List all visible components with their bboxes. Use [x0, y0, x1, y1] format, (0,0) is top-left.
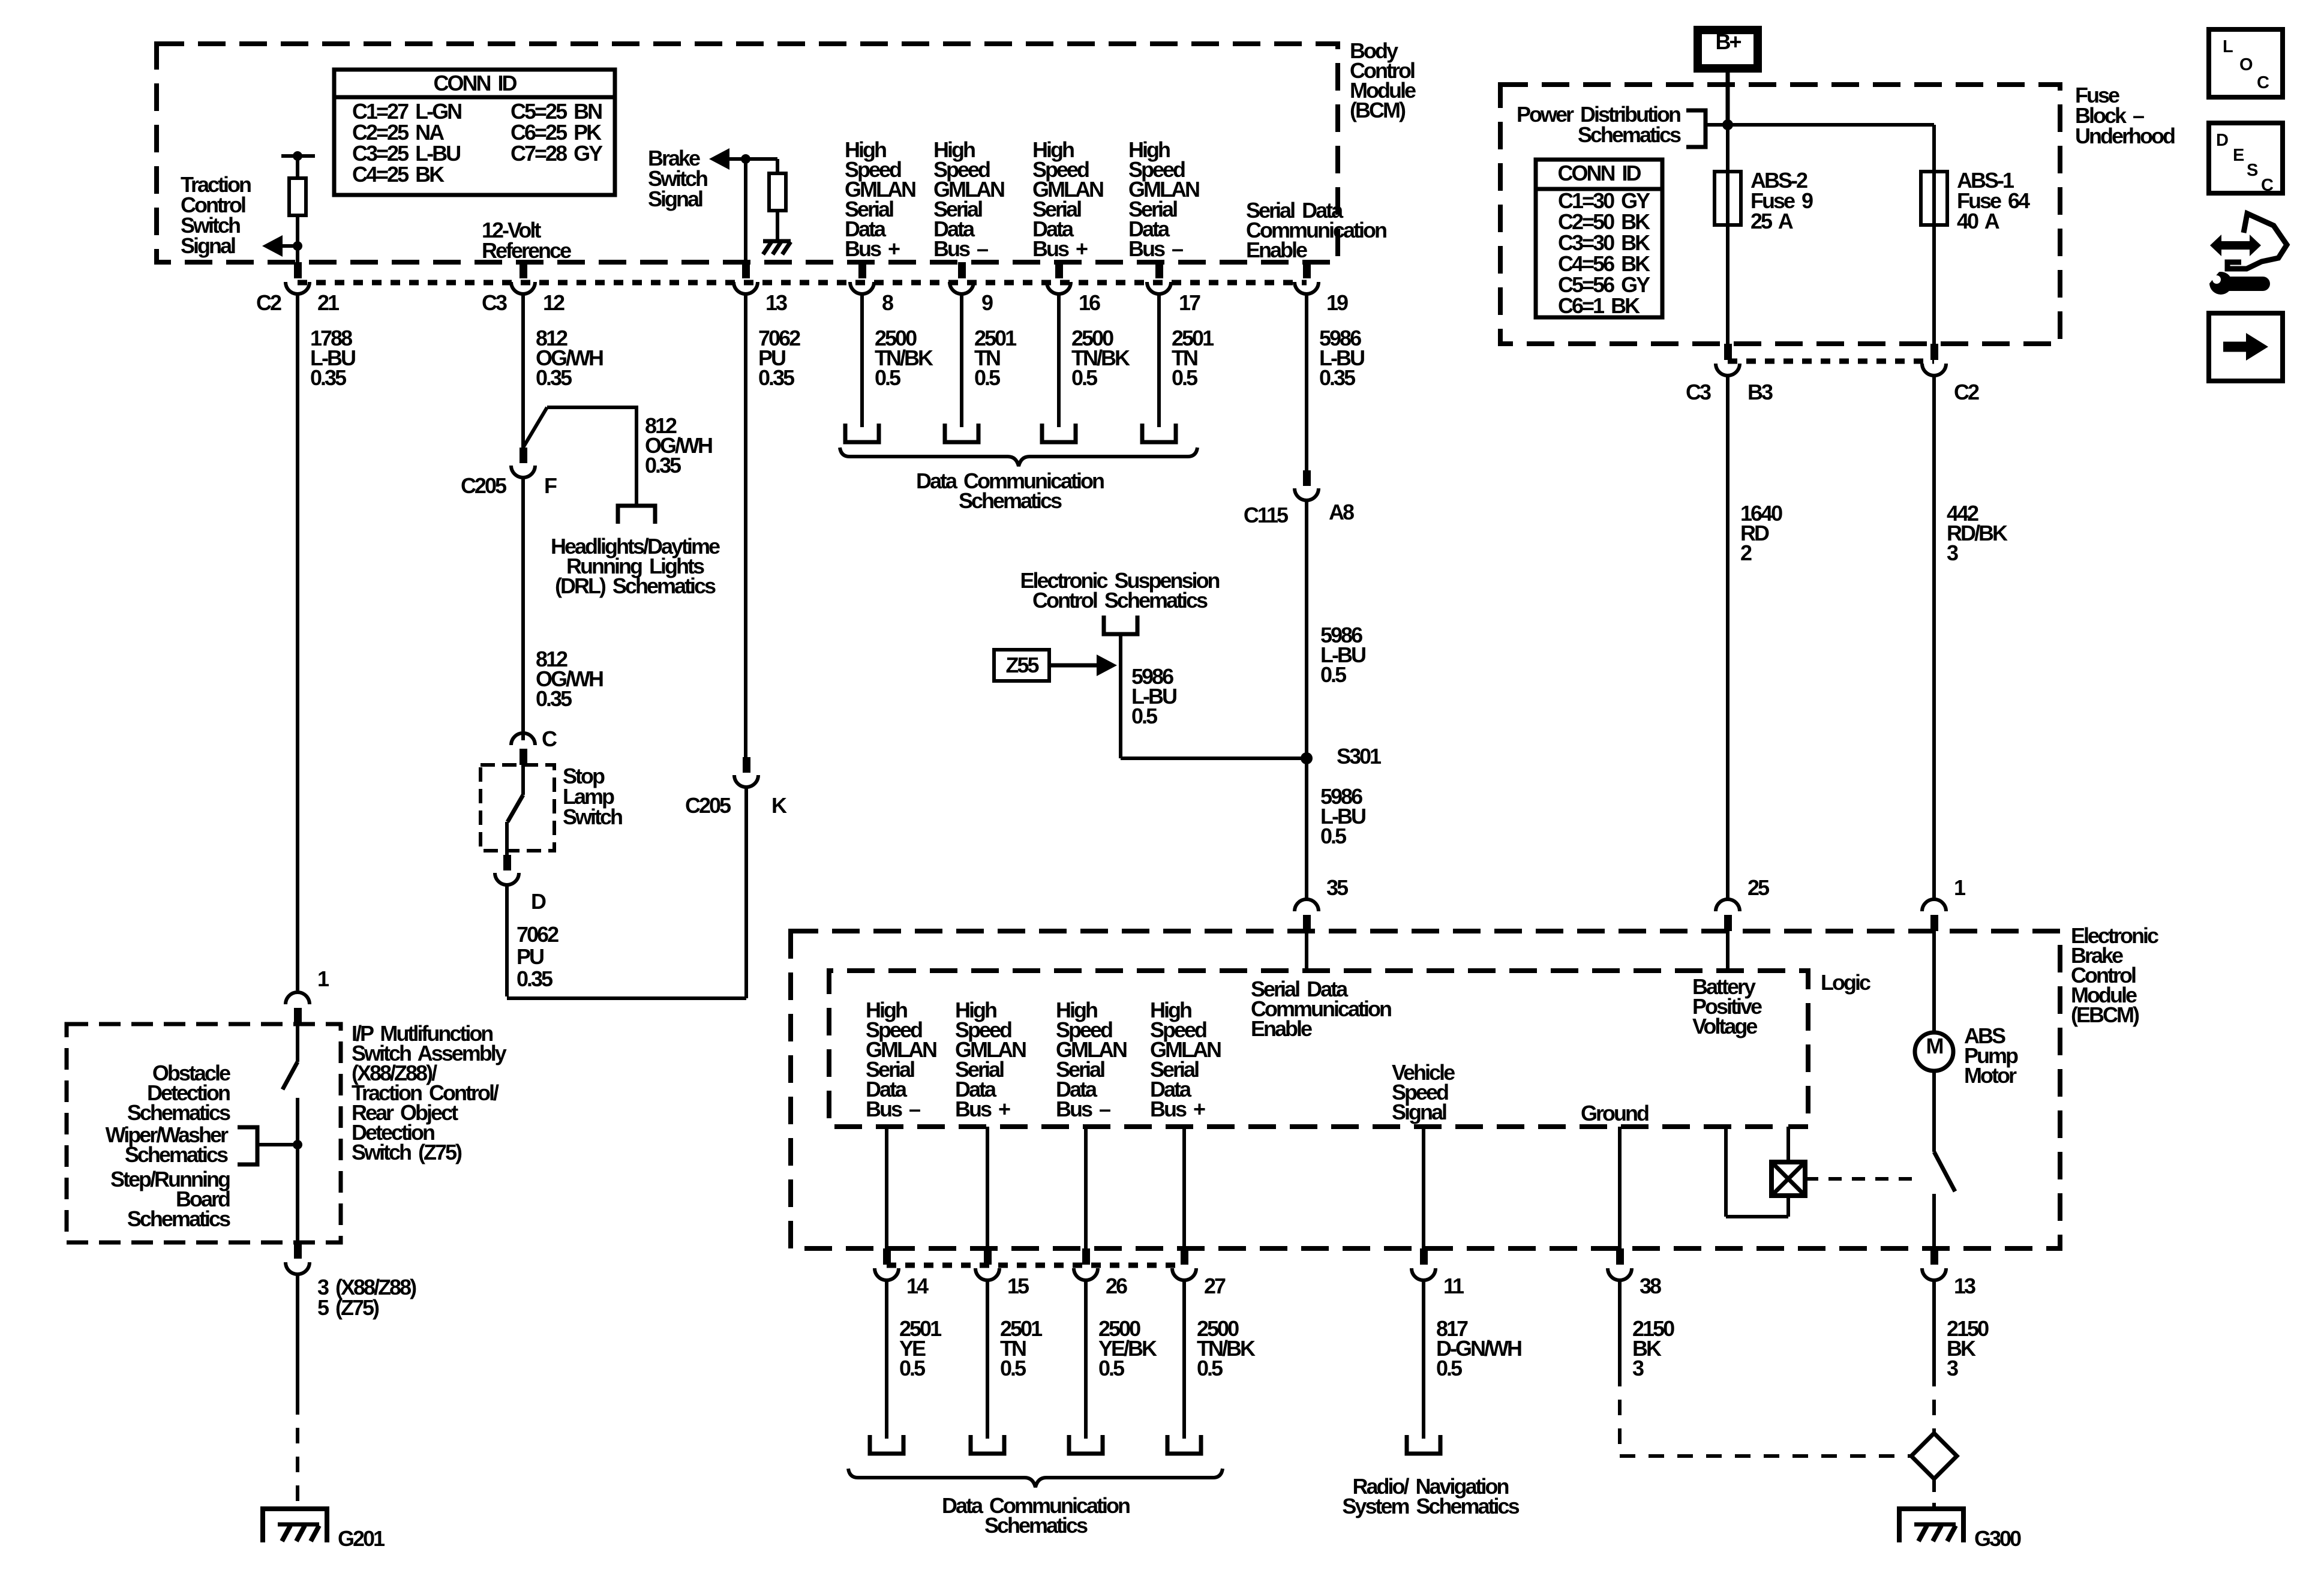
wire 2150 BK horizontal dashed	[1620, 1454, 1911, 1458]
svg-text:C1=30 GYC2=50 BKC3=30 BKC4=56: C1=30 GYC2=50 BKC3=30 BKC4=56 BKC5=56 GY…	[1558, 188, 1650, 318]
connector EBCM pin 35	[1303, 915, 1311, 931]
svg-text:D: D	[531, 889, 546, 914]
wire 5986 branch vertical	[1119, 634, 1122, 758]
resistor brake signal pull-up	[769, 173, 786, 211]
svg-text:7062PU0.35: 7062PU0.35	[758, 326, 800, 390]
ABS pump motor M	[1915, 1032, 1953, 1071]
icon box forward arrow	[2209, 313, 2283, 381]
svg-text:C5=25 BNC6=25 PKC7=28 GY: C5=25 BNC6=25 PKC7=28 GY	[511, 99, 603, 166]
switch blade ABS pump relay	[1934, 1152, 1955, 1191]
svg-text:2501YE0.5: 2501YE0.5	[899, 1316, 942, 1380]
bracket power distribution reference	[1686, 110, 1706, 147]
svg-text:S301: S301	[1337, 744, 1382, 769]
splice S301	[1301, 752, 1313, 764]
svg-text:2500YE/BK0.5: 2500YE/BK0.5	[1098, 1316, 1157, 1380]
connector stop lamp switch C	[520, 749, 527, 765]
svg-text:9: 9	[981, 290, 993, 315]
svg-text:HighSpeedGMLANSerialDataBus +: HighSpeedGMLANSerialDataBus +	[845, 137, 915, 261]
connector BCM pin 12	[520, 262, 527, 278]
wire GMLAN EBCM at x=1478	[885, 1127, 888, 1248]
svg-text:G300: G300	[1974, 1526, 2021, 1551]
bracket wiper/washer reference	[238, 1127, 257, 1164]
reference electronic suspension control	[1104, 616, 1137, 634]
svg-text:CONN ID: CONN ID	[1558, 161, 1641, 185]
icon box DESC	[2209, 123, 2283, 193]
wire 5986 L-BU upper	[1305, 294, 1308, 470]
node B+ junction	[1722, 119, 1733, 130]
wire down to ABS-1 fuse	[1932, 125, 1936, 173]
relay coil (boxed X)	[1771, 1162, 1805, 1196]
svg-text:2150BK3: 2150BK3	[1632, 1316, 1674, 1380]
wire switch lower contact	[296, 1098, 299, 1242]
connector BCM pin 13	[742, 262, 750, 278]
terminal data-comm reference	[1142, 424, 1176, 442]
svg-text:8: 8	[882, 290, 893, 315]
node brake branch junction	[741, 154, 750, 164]
link relay coil to motor switch (dashed)	[1805, 1177, 1915, 1181]
wire GMLAN EBCM at x=1646	[986, 1127, 989, 1248]
reference Headlights/DRL schematics	[618, 506, 655, 524]
svg-text:Power DistributionSchematics: Power DistributionSchematics	[1517, 102, 1681, 147]
wire to terminal at x=1974	[1182, 1280, 1186, 1439]
icon wiring repair (wrench)	[2228, 277, 2263, 291]
svg-text:442RD/BK3: 442RD/BK3	[1947, 501, 2008, 565]
svg-text:5986L-BU0.35: 5986L-BU0.35	[1319, 326, 1364, 390]
svg-text:Headlights/DaytimeRunning Ligh: Headlights/DaytimeRunning Lights(DRL) Sc…	[551, 534, 720, 598]
connector EBCM pin 1	[1930, 915, 1938, 931]
wire 7062 PU down from D	[505, 885, 509, 996]
svg-text:C205: C205	[685, 793, 731, 818]
connector EBCM pin 26	[1082, 1248, 1090, 1265]
svg-text:5986L-BU0.5: 5986L-BU0.5	[1320, 784, 1365, 848]
ground chassis (brake pull-up)	[763, 241, 791, 254]
svg-text:HighSpeedGMLANSerialDataBus –: HighSpeedGMLANSerialDataBus –	[1056, 998, 1127, 1121]
fuse block connector row dotted line	[1728, 359, 1934, 364]
svg-text:1788L-BU0.35: 1788L-BU0.35	[310, 326, 355, 390]
svg-text:38: 38	[1640, 1274, 1661, 1298]
svg-text:Wiper/WasherSchematics: Wiper/WasherSchematics	[106, 1122, 229, 1167]
svg-text:C: C	[2261, 176, 2274, 195]
switch blade stop lamp	[508, 795, 523, 822]
stop lamp switch dashed box	[481, 765, 554, 851]
wire 5986 branch horizontal to S301	[1121, 757, 1307, 760]
svg-text:HighSpeedGMLANSerialDataBus –: HighSpeedGMLANSerialDataBus –	[866, 998, 936, 1121]
svg-text:2500TN/BK0.5: 2500TN/BK0.5	[1071, 326, 1130, 390]
svg-text:BatteryPositiveVoltage: BatteryPositiveVoltage	[1692, 974, 1762, 1038]
terminal reference	[1069, 1435, 1103, 1454]
svg-text:O: O	[2239, 55, 2253, 74]
wire motor to switch	[1932, 1071, 1936, 1152]
svg-text:Data CommunicationSchematics: Data CommunicationSchematics	[942, 1493, 1130, 1538]
wire 812 diagonal to DRL branch	[523, 407, 547, 448]
terminal reference	[1407, 1435, 1440, 1454]
svg-text:ElectronicBrakeControlModule(E: ElectronicBrakeControlModule(EBCM)	[2071, 923, 2158, 1027]
svg-text:19: 19	[1326, 290, 1348, 315]
wire relay coil return left	[1724, 1129, 1728, 1217]
wire pin 1 to motor	[1932, 931, 1936, 1032]
connector EBCM pin 14	[883, 1248, 891, 1265]
svg-text:C115: C115	[1244, 503, 1289, 527]
svg-text:817D-GN/WH0.5: 817D-GN/WH0.5	[1436, 1316, 1521, 1380]
BCM CONN ID table	[334, 70, 615, 195]
svg-text:Logic: Logic	[1821, 970, 1870, 995]
svg-text:B3: B3	[1747, 380, 1773, 404]
wire B+ feed	[1726, 68, 1730, 124]
fuse ABS-1 Fuse 64 40A	[1921, 172, 1947, 225]
wire switch to pin 13	[1932, 1194, 1936, 1248]
connector stop lamp switch D	[503, 855, 511, 870]
connector C205 K	[743, 757, 750, 773]
connector EBCM pin 11	[1420, 1248, 1428, 1265]
svg-text:Z55: Z55	[1005, 653, 1039, 677]
wire wiper/washer tap	[257, 1143, 298, 1146]
svg-text:I/P MutlifunctionSwitch Assemb: I/P MutlifunctionSwitch Assembly(X88/Z88…	[352, 1021, 507, 1164]
fuse block underhood dashed box	[1500, 85, 2060, 344]
wire logic corner to coil	[1788, 1124, 1808, 1129]
wire relay coil return right	[1786, 1196, 1790, 1217]
wire GMLAN EBCM at x=1974	[1182, 1127, 1186, 1248]
wire GMLAN EBCM at x=1810	[1084, 1127, 1088, 1248]
terminal reference	[870, 1435, 903, 1454]
svg-text:HighSpeedGMLANSerialDataBus +: HighSpeedGMLANSerialDataBus +	[1032, 137, 1103, 261]
connector BCM pin 8	[858, 262, 866, 278]
arrow traction control switch signal	[262, 235, 283, 257]
ground G201	[260, 1509, 329, 1542]
wire traction arrow stub	[273, 244, 298, 248]
svg-text:7062PU0.35: 7062PU0.35	[517, 922, 559, 991]
terminal data-comm reference	[945, 424, 978, 442]
connector EBCM pin 25	[1724, 915, 1732, 931]
svg-text:2500TN/BK0.5: 2500TN/BK0.5	[875, 326, 933, 390]
wire 7062 PU horizontal	[507, 996, 746, 1000]
terminal data-comm reference	[845, 424, 879, 442]
terminal data-comm reference	[1042, 424, 1076, 442]
battery feed B+ box	[1698, 30, 1758, 68]
svg-text:13: 13	[765, 290, 787, 315]
connector C205 F	[520, 448, 527, 463]
wire to terminal at x=1810	[1084, 1280, 1088, 1439]
EBCM module box (Electronic Brake Control Module)	[791, 931, 2060, 1248]
svg-text:21: 21	[317, 290, 340, 315]
wire brake resistor to ground	[776, 211, 779, 241]
wire traction resistor top bar	[281, 154, 315, 158]
node wiper/washer junction	[293, 1140, 302, 1149]
wire B+ to ABS-1 fuse	[1728, 123, 1934, 127]
svg-text:BodyControlModule(BCM): BodyControlModule(BCM)	[1350, 38, 1416, 122]
wire 812 OG/WH upper	[521, 294, 525, 448]
icon box LOC	[2209, 29, 2283, 97]
svg-text:12-VoltReference: 12-VoltReference	[482, 218, 571, 263]
svg-text:Ground: Ground	[1581, 1101, 1649, 1125]
svg-text:2150BK3: 2150BK3	[1947, 1316, 1989, 1380]
wire 812 OG/WH lower	[521, 478, 525, 740]
wire 2150 BK (13) dashed	[1932, 1371, 1936, 1433]
wire brake arrow to resistor branch	[729, 157, 777, 161]
svg-text:ABS-2Fuse 925 A: ABS-2Fuse 925 A	[1750, 168, 1813, 233]
svg-text:C1=27 L-GNC2=25 NAC3=25 L-BUC4: C1=27 L-GNC2=25 NAC3=25 L-BUC4=25 BK	[352, 99, 461, 187]
svg-text:2501TN0.5: 2501TN0.5	[974, 326, 1017, 390]
wire 2150 BK (38) dashed	[1618, 1371, 1622, 1456]
node traction resistor top junction	[293, 151, 302, 161]
svg-text:14: 14	[906, 1274, 929, 1298]
wire B+ to ABS-2 fuse	[1726, 124, 1730, 173]
wire GMLAN bus at x=1765	[1057, 294, 1061, 427]
svg-text:27: 27	[1204, 1274, 1226, 1298]
svg-text:A8: A8	[1329, 500, 1354, 524]
svg-text:S: S	[2247, 161, 2258, 180]
wire 2150 BK (38) solid	[1618, 1280, 1622, 1371]
svg-text:C2: C2	[256, 290, 281, 315]
svg-text:16: 16	[1079, 290, 1100, 315]
wire into resistor	[296, 156, 299, 179]
svg-text:13: 13	[1954, 1274, 1975, 1298]
wire 812 horizontal to DRL	[547, 406, 636, 409]
wire to terminal at x=1646	[986, 1280, 989, 1439]
BCM connector row dotted line	[298, 280, 1307, 286]
wire to terminal at x=2373	[1422, 1280, 1425, 1439]
connector EBCM pin 13	[1930, 1248, 1938, 1265]
wire vehicle speed signal	[1422, 1127, 1425, 1248]
I/P multifunction switch dashed box	[67, 1024, 341, 1242]
arrow Z55 pointer	[1097, 655, 1117, 676]
node traction arrow junction	[293, 241, 302, 251]
svg-text:HighSpeedGMLANSerialDataBus +: HighSpeedGMLANSerialDataBus +	[1150, 998, 1221, 1121]
svg-text:Electronic SuspensionControl S: Electronic SuspensionControl Schematics	[1020, 568, 1219, 613]
wire resistor to BCM pin 21	[296, 215, 299, 266]
arrow brake switch signal	[709, 148, 729, 170]
fuse ABS-2 Fuse 9 25A	[1715, 172, 1741, 225]
fuse block CONN ID table	[1536, 160, 1662, 317]
svg-text:812OG/WH0.35: 812OG/WH0.35	[536, 326, 603, 390]
svg-text:HighSpeedGMLANSerialDataBus +: HighSpeedGMLANSerialDataBus +	[955, 998, 1026, 1121]
wire diamond to G300 dashed	[1932, 1479, 1936, 1509]
svg-text:35: 35	[1326, 875, 1349, 900]
splice diamond (ground junction)	[1911, 1433, 1957, 1479]
svg-text:E: E	[2233, 146, 2244, 165]
connector BCM pin 17	[1155, 262, 1163, 278]
EBCM logic inner dashed box	[829, 971, 1808, 1127]
wire GMLAN bus at x=1603	[960, 294, 963, 427]
connector BCM pin 21	[294, 262, 302, 278]
svg-text:HighSpeedGMLANSerialDataBus –: HighSpeedGMLANSerialDataBus –	[933, 137, 1004, 261]
wire power distribution tap	[1706, 123, 1728, 127]
svg-text:C: C	[2257, 73, 2269, 92]
icon wiring repair (connector outline)	[2227, 214, 2287, 269]
wire 5986 L-BU middle	[1305, 500, 1308, 899]
svg-text:C205: C205	[461, 473, 507, 498]
wire relay coil to logic	[1786, 1127, 1790, 1162]
wire GMLAN bus at x=1437	[860, 294, 864, 427]
svg-text:B+: B+	[1715, 29, 1741, 54]
wire GMLAN bus at x=1932	[1157, 294, 1161, 427]
svg-text:HighSpeedGMLANSerialDataBus –: HighSpeedGMLANSerialDataBus –	[1128, 137, 1199, 261]
terminal reference	[971, 1435, 1004, 1454]
svg-text:15: 15	[1007, 1274, 1029, 1298]
wire to brake resistor	[776, 159, 779, 175]
ground G300	[1897, 1509, 1966, 1542]
svg-text:Serial DataCommunicationEnable: Serial DataCommunicationEnable	[1251, 977, 1391, 1041]
connector EBCM pin 38	[1616, 1248, 1624, 1265]
switch blade I/P multifunction	[283, 1062, 298, 1089]
svg-text:26: 26	[1106, 1274, 1127, 1298]
wire stop lamp upper contact	[521, 765, 525, 795]
connector BCM pin 19	[1303, 262, 1311, 278]
wire through fuse ABS-1	[1932, 172, 1936, 225]
svg-text:812OG/WH0.35: 812OG/WH0.35	[536, 647, 603, 711]
svg-text:C3: C3	[482, 290, 507, 315]
connector BCM pin 16	[1055, 262, 1063, 278]
svg-text:BrakeSwitchSignal: BrakeSwitchSignal	[648, 146, 707, 211]
svg-text:1: 1	[1954, 875, 1966, 900]
wire 442 RD/BK	[1932, 376, 1936, 899]
wire 2150 BK (13) solid	[1932, 1280, 1936, 1371]
resistor traction control pull-up	[289, 178, 306, 215]
brace data communication schematics (top)	[840, 448, 1197, 466]
wire to terminal at x=1478	[885, 1280, 888, 1439]
svg-text:C3: C3	[1686, 380, 1711, 404]
svg-text:StopLampSwitch: StopLampSwitch	[563, 764, 622, 829]
wire 7062 PU to corner	[744, 787, 748, 998]
reference box Z55	[994, 650, 1049, 681]
EBCM connector row dotted line	[887, 1263, 1184, 1268]
svg-text:FuseBlock –Underhood: FuseBlock –Underhood	[2075, 83, 2175, 148]
svg-text:C2: C2	[1954, 380, 1979, 404]
svg-text:F: F	[544, 473, 557, 498]
svg-text:ObstacleDetectionSchematics: ObstacleDetectionSchematics	[127, 1061, 230, 1125]
BCM module box (Body Control Module)	[157, 44, 1338, 262]
svg-text:2500TN/BK0.5: 2500TN/BK0.5	[1197, 1316, 1256, 1380]
svg-text:3 (X88/Z88)5 (Z75): 3 (X88/Z88)5 (Z75)	[317, 1275, 416, 1320]
svg-text:Data CommunicationSchematics: Data CommunicationSchematics	[916, 469, 1104, 513]
svg-text:Serial DataCommunicationEnable: Serial DataCommunicationEnable	[1246, 198, 1386, 262]
svg-text:1: 1	[317, 966, 329, 991]
svg-text:2501TN0.5: 2501TN0.5	[1000, 1316, 1043, 1380]
svg-text:17: 17	[1179, 290, 1200, 315]
svg-text:5986L-BU0.5: 5986L-BU0.5	[1320, 623, 1365, 687]
svg-text:12: 12	[543, 290, 565, 315]
wire ABS-1 fuse to pin C2	[1932, 225, 1936, 344]
svg-text:2501TN0.5: 2501TN0.5	[1172, 326, 1214, 390]
svg-text:ABS-1Fuse 6440 A: ABS-1Fuse 6440 A	[1957, 168, 2030, 233]
connector I/P switch pin 3/5	[294, 1242, 302, 1259]
svg-text:TractionControlSwitchSignal: TractionControlSwitchSignal	[181, 172, 251, 258]
wire 1640 RD	[1726, 376, 1730, 899]
svg-text:5986L-BU0.5: 5986L-BU0.5	[1131, 664, 1176, 728]
svg-text:ABSPumpMotor: ABSPumpMotor	[1964, 1023, 2018, 1088]
wire through fuse ABS-2	[1726, 172, 1730, 225]
svg-text:CONN ID: CONN ID	[434, 71, 517, 95]
svg-text:Step/RunningBoardSchematics: Step/RunningBoardSchematics	[110, 1167, 230, 1231]
wire ABS-2 fuse to pin B3	[1726, 225, 1730, 344]
wire Z55 arrow shaft	[1049, 664, 1097, 668]
svg-text:1640RD2: 1640RD2	[1740, 501, 1782, 565]
svg-text:VehicleSpeedSignal: VehicleSpeedSignal	[1392, 1060, 1455, 1124]
connector EBCM pin 27	[1181, 1248, 1188, 1265]
terminal reference	[1167, 1435, 1201, 1454]
brace data communication schematics (bottom)	[848, 1469, 1223, 1487]
connector BCM pin 9	[958, 262, 966, 278]
connector fuse block C2	[1930, 344, 1938, 360]
svg-text:C: C	[542, 727, 557, 751]
svg-text:11: 11	[1443, 1274, 1464, 1298]
wire stop lamp lower contact	[505, 822, 509, 855]
connector I/P switch pin 1	[294, 1008, 302, 1024]
svg-text:Radio/ NavigationSystem Schema: Radio/ NavigationSystem Schematics	[1342, 1474, 1519, 1518]
wire pin 35 into logic	[1305, 931, 1308, 971]
wire 7062 PU from BCM pin 13	[744, 294, 747, 757]
wire brake signal to BCM pin 13	[744, 159, 747, 266]
wire switch upper contact	[296, 1024, 299, 1062]
wire to ground G201 (solid)	[296, 1274, 299, 1399]
connector fuse block C3 B3	[1724, 344, 1732, 360]
wire 812 down to DRL reference	[635, 406, 638, 506]
svg-text:25: 25	[1747, 875, 1770, 900]
svg-text:812OG/WH0.35: 812OG/WH0.35	[645, 413, 712, 478]
wire pin 25 into logic	[1726, 931, 1730, 971]
svg-text:M: M	[1926, 1034, 1943, 1058]
svg-text:D: D	[2216, 131, 2228, 150]
wire 1788 L-BU from BCM pin 21	[296, 294, 299, 990]
connector C115 A8	[1303, 470, 1311, 486]
wire ground 38	[1618, 1127, 1622, 1248]
icon wiring repair (double arrow)	[2218, 241, 2253, 250]
svg-text:G201: G201	[338, 1526, 385, 1551]
connector EBCM pin 15	[984, 1248, 992, 1265]
svg-text:K: K	[771, 793, 787, 818]
wire relay coil return bottom	[1726, 1215, 1788, 1218]
svg-text:L: L	[2223, 37, 2233, 56]
wire to ground G201 (dashed)	[296, 1399, 299, 1509]
